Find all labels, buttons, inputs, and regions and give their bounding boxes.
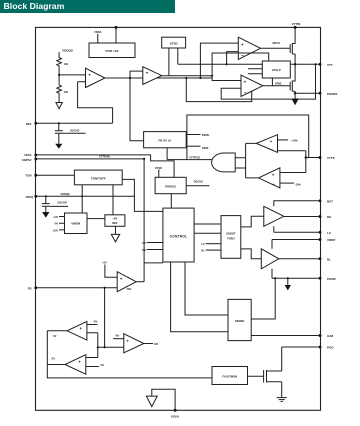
junction PGND arrow [287,277,289,279]
wire U2 input riser / FBOVLV feed [130,71,144,141]
ground REF5 (open arrow) [111,234,119,242]
junction FB [104,287,106,289]
svg-text:LX: LX [201,242,205,246]
pin VDDA [34,153,37,156]
junction VTTR tap U2 [129,77,131,79]
box +5V REF [105,215,125,227]
pin VDDQ [34,195,37,198]
box CONTROL [163,208,194,262]
wire PG stub [147,249,163,251]
svg-text:REF: REF [26,122,32,126]
ground Q1 (filled arrow) [55,144,62,149]
wire VTTS sense loop [187,115,309,160]
box POR/SS 1 [89,43,135,58]
ground VSSA (open arrow) [146,396,157,407]
op-amp U1 (VDDQ/2 buffer) [86,68,105,87]
wire DH [284,216,319,218]
svg-text:+: + [146,71,149,76]
pin PGND2 [319,92,322,95]
pin DL [319,257,322,260]
resistor R2 [57,85,62,95]
junction VTT sense upper [226,63,228,65]
op-amp U5 error amp FBA [117,272,136,292]
svg-text:VDDQ: VDDQ [26,195,34,199]
comparator U8 (-10% window) [259,168,280,188]
wire TON line [36,174,74,176]
svg-text:VTTPGD: VTTPGD [189,155,200,159]
wire LDO loop A [186,78,251,102]
driver D1 (high side) [264,206,284,226]
junction VDDQ discharge [45,195,47,197]
svg-text:LX: LX [327,231,331,235]
wire OV stub [147,242,163,244]
wire VTT sense to U4 - input [221,64,315,99]
svg-text:+: + [88,73,91,78]
pin PGND [319,277,322,280]
svg-text:POR/SS: POR/SS [165,184,176,188]
op-amp U3 (VTT LDO high) [238,37,260,59]
svg-text:VTTRUN: VTTRUN [99,155,110,159]
wire REF5 ground stem [115,226,117,234]
wire PGD [282,347,319,371]
pin EN/PSV [34,157,37,160]
svg-text:OV: OV [142,241,146,245]
wire OVLP stubs [212,53,272,86]
header bar [0,0,175,13]
box TON/TOFF [74,170,122,185]
svg-text:TON/TOFF: TON/TOFF [91,177,106,181]
wire AND outputs to window comparators [235,143,258,178]
wire BST [274,201,319,207]
svg-text:-10%: -10% [295,182,302,186]
wire CONTROL to SHOOT-THRU [194,224,221,233]
pin FB [34,286,37,289]
svg-text:VDDA: VDDA [24,153,31,157]
junction REF discharge [58,122,60,124]
pin REF [34,122,37,125]
svg-text:PG: PG [142,248,146,252]
wire DSCHG stub (POR/SS 2) [186,185,209,187]
svg-text:OV: OV [51,356,55,360]
svg-text:FB OV LV: FB OV LV [159,138,172,142]
junction PGND to SENSE [274,277,276,279]
resistor R1 [57,58,62,68]
svg-text:THRU: THRU [227,236,235,240]
svg-text:PGND2: PGND2 [327,92,338,96]
junction FB comparators [104,346,106,348]
svg-text:Block Diagram: Block Diagram [4,1,65,11]
wire POR/SS to VTTIN rail [115,27,117,43]
wire OTSD outputs [169,48,178,76]
svg-text:CONTROL: CONTROL [170,235,188,239]
wire TON/TOFF to CONTROL [122,179,163,211]
wire U1 feedback loop to REF [78,82,113,124]
wire FB drop to comparators [104,288,106,348]
wire VDDQS stem [58,52,60,58]
box OTSD [162,37,186,48]
wire VTTR rail (U1 out) [105,77,212,79]
wire SD threshold stub [113,338,124,340]
junction VTT sense lower [314,63,316,65]
wire divider mid [59,68,85,85]
junction VDDQ risers [81,195,83,197]
svg-text:+: + [120,276,123,281]
svg-text:VMON: VMON [71,222,80,226]
pin TON [34,174,37,177]
pin VDDP [319,238,322,241]
wire VMON threshold stubs [59,217,65,230]
pin PGD [319,346,322,349]
wire OV output [47,364,65,366]
wire R2 to ground [58,95,60,103]
box VMON [65,213,88,234]
svg-text:FAULTMON: FAULTMON [222,374,237,378]
svg-text:10k: 10k [64,90,69,94]
wire UV output [47,330,67,332]
svg-text:VSSA: VSSA [171,414,180,418]
transistor Q3 (VTT low side) [263,64,295,93]
svg-text:DSCHG: DSCHG [58,201,67,205]
svg-text:VTTIN: VTTIN [292,22,301,26]
junction loop A [185,77,187,79]
svg-text:OTSD: OTSD [155,166,162,170]
svg-text:+: + [244,80,247,85]
box FAULTMON [212,367,248,385]
comparator U11 SD [124,334,144,353]
svg-text:VDDQS: VDDQS [62,48,73,52]
pin ILIM [319,334,322,337]
wire UV - input / FB riser [86,333,98,358]
wire PGND to SENSE [251,278,275,319]
op-amp U4 (VTT LDO low) [241,75,263,96]
junction VTTS [305,156,308,159]
svg-text:DH: DH [327,215,331,219]
svg-text:VDDP: VDDP [327,238,335,242]
junction divider tap [58,74,60,76]
svg-text:FBA: FBA [127,288,132,291]
wire LX [274,226,319,232]
svg-text:DRVH: DRVH [202,133,209,137]
pin DH [319,215,322,218]
wire DRVH stub [186,134,200,136]
wire FB line [36,287,117,289]
wire DL stub [206,249,221,251]
wire +5V to error amp [105,265,117,278]
ground divider (open arrow) [56,103,62,109]
svg-text:DSCHG: DSCHG [194,180,203,184]
svg-text:DRVH: DRVH [273,41,280,45]
junction VTT at FETs [294,63,297,66]
wire comparators to FAULTMON [47,331,212,378]
wire SHOOT-THRU to driver 1 [241,216,264,227]
wire VMON to REF5 [87,218,105,220]
pin LX [319,231,322,234]
transistor Q2 (VTT high side) [261,27,296,64]
svg-text:VDDA: VDDA [94,30,101,34]
svg-text:−: − [272,181,275,186]
junction FB riser [97,346,99,348]
wire CONTROL to SENSE 2 [171,262,228,332]
svg-text:POR / SS: POR / SS [105,49,118,53]
junction U3 feed [199,77,201,79]
node VTTIN [294,26,297,29]
wire SD output [144,343,153,345]
op-amp U2 [143,67,162,85]
svg-text:VDDQS: VDDQS [60,192,69,196]
wire SHOOT-THRU to driver 2 [241,249,261,259]
svg-text:+: + [241,42,244,47]
junction EN riser [143,158,145,160]
wire to U4 + input [212,76,241,81]
wire VTTPGD [167,148,213,160]
junction VSSA [174,409,177,412]
svg-text:VTT: VTT [327,63,333,67]
transistor Q4 VDDQ discharge [42,196,68,212]
wire DL [279,258,319,260]
svg-text:BST: BST [327,199,333,203]
wire REF line [36,122,113,124]
box SHOOT-THRU [221,216,241,259]
wire to U3 + input [200,43,238,78]
svg-text:DL: DL [201,249,205,253]
svg-text:UV: UV [53,334,57,338]
and gate U6 (mirrored) [212,153,236,172]
svg-text:−: − [241,54,244,59]
svg-text:FB: FB [28,286,32,290]
wire error amp out [136,281,144,283]
svg-text:SD: SD [154,342,158,346]
svg-text:DSCHG: DSCHG [70,128,79,132]
wire to CONTROL lower left [144,262,163,264]
wire U2 out rail [162,75,212,77]
wire PGND2 [295,92,318,94]
svg-text:PGD: PGD [327,346,334,350]
wire POR/SS 2 to CONTROL [170,194,172,208]
wire -10% stub [280,182,294,184]
svg-text:VTTS: VTTS [327,156,335,160]
svg-text:EN/PSV: EN/PSV [22,158,32,162]
wire DRVL stub [186,145,200,147]
wire FB junction line [98,346,124,348]
wire OV threshold stub [86,366,99,368]
ground Q3 (filled arrow) [294,93,296,98]
ground PGND (filled arrow) [287,278,289,285]
box OVLP [262,61,290,78]
outer border [36,27,321,410]
wire VSSA riser [152,389,175,410]
svg-text:DL: DL [327,257,331,261]
driver D2 (low side) [261,249,279,269]
wire UV threshold stub [87,324,97,326]
wire PGND [272,269,319,278]
wire VDDA to POR/SS [97,34,99,43]
svg-text:TON: TON [26,174,32,178]
wire VMON riser [81,196,83,213]
wire TON/TOFF bottoms [82,185,113,215]
pin BST [319,199,322,202]
comparator U7 (+10% window) [256,135,277,153]
transistor Q1 REF discharge [55,123,86,143]
svg-text:+5V: +5V [102,260,107,264]
ground Q5 (bars) [277,398,287,402]
wire CONTROL to SENSE 1 [185,262,228,315]
svg-text:−: − [244,91,247,96]
wire VDDA rail to POR/SS 2 [36,155,174,177]
junction PGND2 [294,92,297,95]
pin VTT [319,63,322,66]
wire VTTS pin line [306,157,319,159]
svg-text:-10%: -10% [52,229,58,232]
wire VDDP [272,240,319,249]
svg-text:+5V: +5V [112,217,117,221]
wire OTSD stub [158,169,160,177]
svg-text:+10%: +10% [291,138,298,142]
transistor Q5 (PGD pull down) [264,370,282,398]
wire ILIM [251,335,318,337]
box SENSE [228,299,251,340]
box POR/SS 2 [155,177,186,193]
junction U4 feed [211,75,213,77]
box FB OV LV [144,132,187,148]
wire EN/PSV line [36,158,144,160]
svg-text:OTSD: OTSD [170,41,178,45]
svg-text:DRVL: DRVL [202,146,209,150]
svg-text:DRVL: DRVL [275,82,282,86]
wire VTT sense to U3 - input [227,52,239,65]
svg-text:PGND: PGND [327,277,337,281]
svg-text:xOVLP: xOVLP [272,68,281,72]
ground Q4 (filled arrow) [42,212,49,218]
wire VTTS to window comparators [278,151,306,173]
comparator U10 OV [65,355,86,375]
wire FAULTMON to Q5 gate [248,375,264,377]
wire VTT rail [178,63,319,65]
svg-text:SHOOT: SHOOT [226,231,236,235]
svg-text:ILIM: ILIM [327,334,333,338]
wire +10% stub [278,139,289,141]
junction POR/SS top [115,26,118,29]
pin VTTS [319,156,322,159]
svg-text:−: − [270,147,273,152]
svg-text:REF: REF [112,221,118,225]
wire LX stub [206,243,221,245]
wire VDDQ line [36,195,135,197]
svg-text:10k: 10k [64,62,69,66]
svg-text:SENSE: SENSE [235,319,245,323]
wire EN riser [143,159,145,282]
comparator U9 UV [67,321,87,340]
